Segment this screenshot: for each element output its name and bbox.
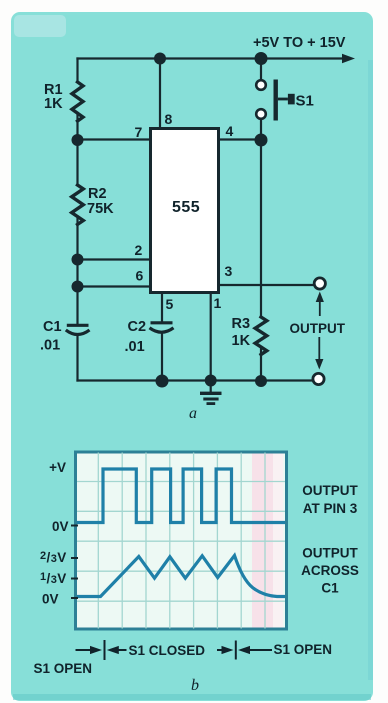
svg-text:S1: S1	[296, 93, 314, 110]
svg-text:.01: .01	[125, 339, 145, 355]
svg-text:0V: 0V	[52, 519, 69, 534]
svg-text:8: 8	[165, 111, 173, 127]
svg-text:OUTPUT: OUTPUT	[302, 483, 358, 498]
svg-text:S1 OPEN: S1 OPEN	[274, 642, 333, 657]
svg-text:S1 CLOSED: S1 CLOSED	[129, 643, 206, 658]
svg-text:.01: .01	[40, 338, 60, 354]
svg-text:1: 1	[214, 295, 222, 311]
svg-text:a: a	[189, 405, 197, 422]
svg-text:R3: R3	[232, 316, 251, 332]
svg-text:+5V TO + 15V: +5V TO + 15V	[253, 35, 346, 51]
svg-text:5: 5	[166, 296, 174, 312]
svg-text:2: 2	[135, 242, 143, 258]
svg-text:0V: 0V	[42, 592, 59, 607]
svg-text:C2: C2	[128, 319, 147, 335]
svg-text:OUTPUT: OUTPUT	[302, 546, 358, 561]
svg-text:3: 3	[225, 263, 233, 279]
svg-text:+V: +V	[49, 460, 66, 475]
svg-text:7: 7	[135, 124, 143, 140]
svg-text:S1 OPEN: S1 OPEN	[34, 661, 93, 676]
svg-text:555: 555	[172, 199, 200, 216]
svg-text:75K: 75K	[87, 201, 114, 217]
svg-text:ACROSS: ACROSS	[301, 563, 359, 578]
svg-text:C1: C1	[43, 319, 62, 335]
svg-text:b: b	[191, 677, 199, 694]
svg-text:1K: 1K	[44, 96, 63, 112]
svg-text:AT PIN 3: AT PIN 3	[303, 501, 358, 516]
svg-text:4: 4	[226, 123, 234, 139]
svg-text:R2: R2	[88, 186, 107, 202]
svg-text:OUTPUT: OUTPUT	[290, 321, 346, 336]
svg-text:C1: C1	[321, 581, 339, 596]
svg-text:1K: 1K	[232, 333, 251, 349]
svg-text:6: 6	[136, 268, 144, 284]
